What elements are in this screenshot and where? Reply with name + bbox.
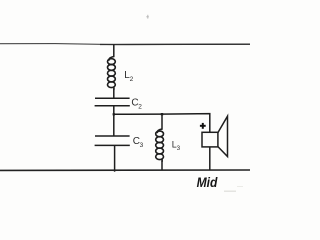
label C2	[131, 98, 142, 111]
node A junction	[113, 113, 115, 115]
scan speck bottom right	[224, 191, 236, 192]
wire C3 to bottom bus	[114, 145, 116, 171]
scan speck near top	[146, 15, 148, 19]
wire top bus	[0, 44, 250, 45]
inductor L3	[156, 129, 164, 162]
inductor L2	[108, 57, 116, 91]
plus terminal of speaker	[200, 123, 206, 129]
svg-text:2: 2	[130, 76, 134, 83]
speaker driver Mid: box	[202, 132, 218, 147]
label C3	[133, 136, 144, 149]
capacitor C2	[95, 98, 130, 106]
wire C2 down to node A	[113, 106, 115, 115]
wire L3 to bottom bus	[161, 162, 163, 171]
junction at L3 top	[161, 113, 163, 115]
svg-text:2: 2	[138, 104, 142, 111]
wire from middle wire down to L3	[161, 114, 163, 130]
speaker driver Mid: horn	[218, 116, 228, 156]
wire node A down to C3	[113, 114, 115, 136]
wire from top bus down to L2	[113, 44, 115, 57]
wire bottom bus	[0, 169, 250, 171]
capacitor C3	[95, 136, 130, 145]
svg-text:3: 3	[140, 142, 144, 149]
label L3	[172, 139, 181, 152]
wire L2 to C2	[113, 90, 115, 99]
wire node A to speaker corner	[114, 114, 210, 133]
label L2	[124, 70, 133, 83]
svg-text:Mid: Mid	[197, 175, 218, 191]
wire speaker to bottom bus	[209, 147, 211, 170]
